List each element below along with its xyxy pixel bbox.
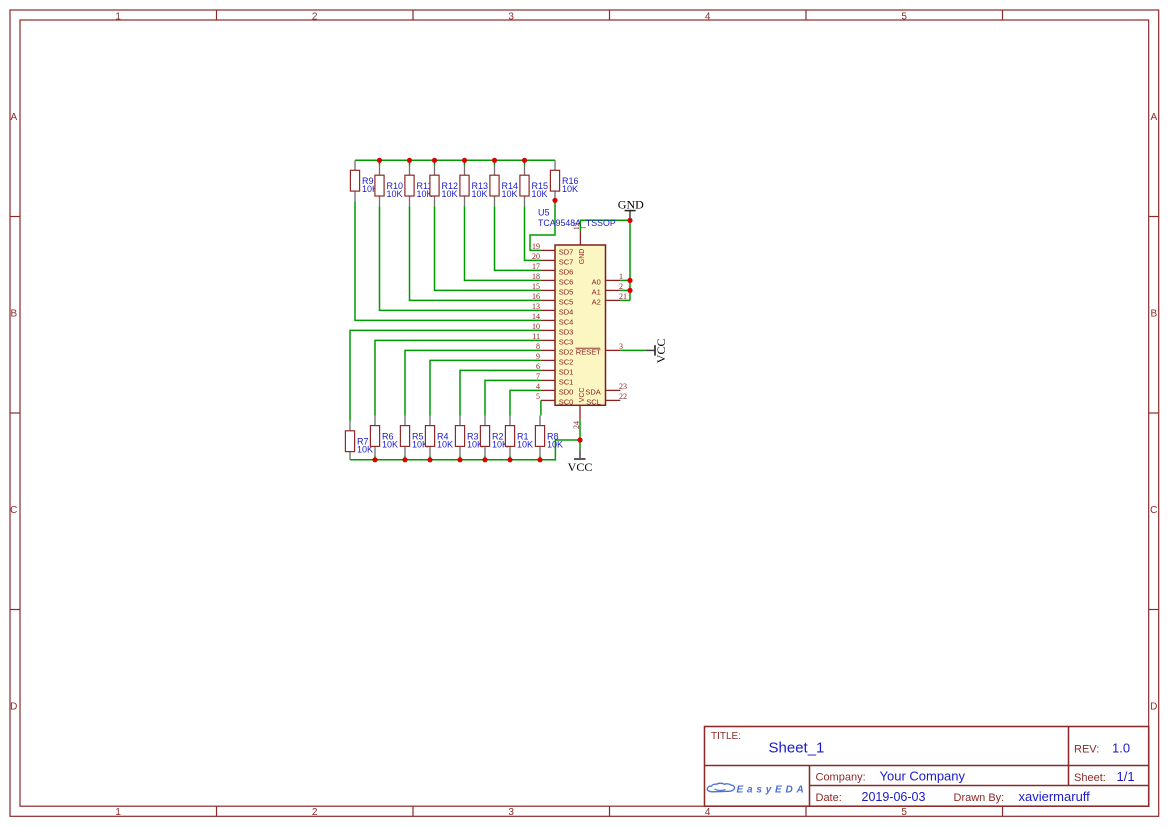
svg-text:VCC: VCC (568, 460, 593, 474)
wire U5 pin 12 to GND rail (580, 220, 630, 231)
svg-text:Sheet:: Sheet: (1074, 772, 1106, 784)
svg-text:EasyEDA: EasyEDA (737, 784, 808, 795)
svg-text:SC6: SC6 (559, 277, 574, 286)
wire R13 to U5 pin 18 SC6 (465, 206, 541, 280)
svg-text:SD0: SD0 (559, 387, 574, 396)
svg-text:7: 7 (536, 372, 540, 381)
svg-text:Date:: Date: (816, 792, 842, 804)
svg-text:Company:: Company: (816, 772, 866, 784)
svg-text:SDA: SDA (585, 387, 600, 396)
pin 17 SD6 (532, 262, 573, 276)
wire R8 to U5 pin 5 SC0 (540, 400, 542, 415)
svg-text:D: D (1150, 701, 1157, 712)
junction GND at A1 (627, 288, 632, 293)
junction top bus at R12 (432, 158, 437, 163)
wire RESET to VCC (620, 349, 645, 351)
svg-text:A1: A1 (592, 287, 601, 296)
wire bottom bus to VCC node (540, 440, 580, 460)
svg-text:3: 3 (508, 807, 514, 818)
svg-text:17: 17 (532, 262, 540, 271)
junction bottom bus at R8 (537, 457, 542, 462)
svg-text:12: 12 (572, 222, 581, 230)
svg-text:10K: 10K (502, 189, 518, 199)
svg-text:Sheet_1: Sheet_1 (769, 739, 825, 756)
pin 14 SC4 (532, 312, 573, 326)
svg-text:4: 4 (536, 382, 540, 391)
svg-text:SC0: SC0 (559, 397, 574, 406)
wire top bus stub to R11 (409, 160, 411, 165)
pin 4 SD0 (536, 382, 573, 396)
wire bottom bus stub to R3 (459, 456, 461, 460)
svg-text:21: 21 (619, 292, 627, 301)
pin 3 RESET (576, 342, 624, 356)
junction bottom bus at R3 (457, 457, 462, 462)
svg-text:10K: 10K (562, 184, 578, 194)
svg-text:SD2: SD2 (559, 347, 574, 356)
svg-text:1: 1 (619, 272, 623, 281)
svg-text:4: 4 (705, 11, 711, 22)
junction bottom bus at R4 (427, 457, 432, 462)
svg-text:2: 2 (312, 807, 318, 818)
svg-text:3: 3 (619, 342, 623, 351)
pin 22 SCL (586, 392, 627, 406)
wire bottom bus stub to R4 (429, 456, 431, 460)
junction bottom bus at R1 (507, 457, 512, 462)
svg-text:Drawn By:: Drawn By: (954, 792, 1005, 804)
pin 16 SC5 (532, 292, 573, 306)
power symbol VCC (right, at RESET) (646, 339, 668, 364)
svg-text:GND: GND (579, 249, 586, 265)
svg-text:A: A (10, 112, 17, 123)
svg-text:SC3: SC3 (559, 337, 574, 346)
junction bottom bus at R5 (402, 457, 407, 462)
wire R12 to U5 pin 15 SD5 (435, 206, 541, 290)
svg-text:SD3: SD3 (559, 327, 574, 336)
svg-text:1: 1 (115, 11, 121, 22)
wire bottom bus stub to R8 (539, 456, 541, 460)
svg-text:10K: 10K (517, 440, 533, 450)
ground symbol / net GND (618, 197, 644, 219)
svg-text:10K: 10K (382, 440, 398, 450)
svg-text:B: B (10, 308, 17, 319)
svg-text:24: 24 (572, 421, 581, 429)
wire R9 to U5 pin 14 SC4 (355, 201, 541, 320)
svg-text:8: 8 (536, 342, 540, 351)
junction top bus at R15 (522, 158, 527, 163)
svg-text:A0: A0 (592, 277, 601, 286)
wire R2 to U5 pin 7 SC1 (485, 380, 541, 415)
svg-text:16: 16 (532, 292, 540, 301)
resistor R3 10K (455, 416, 483, 456)
svg-text:1: 1 (115, 807, 121, 818)
wire R16 to U5 pin 19 SD7 (530, 198, 555, 250)
wire top pull-up bus (355, 159, 555, 161)
junction top bus at R10 (377, 158, 382, 163)
junction GND net at symbol (627, 218, 632, 223)
wire bottom bus stub to R6 (374, 456, 376, 460)
wire A2 stub (620, 299, 630, 301)
wire R1 to U5 pin 4 SD0 (510, 390, 541, 415)
power symbol VCC (bottom, at pin 24) (568, 450, 593, 474)
svg-text:A: A (1150, 112, 1157, 123)
svg-text:SC7: SC7 (559, 257, 574, 266)
svg-text:4: 4 (705, 807, 711, 818)
svg-text:9: 9 (536, 352, 540, 361)
wire R14 to U5 pin 17 SD6 (495, 206, 541, 270)
wire R4 to U5 pin 9 SC2 (430, 360, 541, 415)
resistor R16 10K (550, 160, 578, 198)
svg-text:C: C (10, 505, 17, 516)
svg-text:Your Company: Your Company (880, 769, 966, 784)
wire R3 to U5 pin 6 SD1 (460, 370, 541, 415)
op-amp/IC U5 TCA9548A_TSSOP body (538, 208, 616, 406)
wire A1 stub (620, 289, 630, 291)
wire R5 to U5 pin 8 SD2 (405, 350, 541, 415)
svg-text:15: 15 (532, 282, 540, 291)
svg-text:2: 2 (312, 11, 318, 22)
wire top bus stub to R12 (434, 160, 436, 165)
svg-text:20: 20 (532, 252, 540, 261)
svg-text:3: 3 (508, 11, 514, 22)
pin 13 SD4 (532, 302, 573, 316)
pin 19 SD7 (532, 242, 573, 256)
resistor R13 10K (460, 165, 488, 206)
wire GND rail down right side (629, 220, 631, 300)
wire bottom bus stub to R2 (484, 456, 486, 460)
pin 9 SC2 (536, 352, 573, 366)
wire top bus stub to R14 (494, 160, 496, 165)
svg-text:5: 5 (536, 392, 540, 401)
wire R10 to U5 pin 13 SD4 (380, 206, 541, 310)
svg-text:13: 13 (532, 302, 540, 311)
resistor R6 10K (370, 416, 398, 456)
resistor R1 10K (505, 416, 533, 456)
resistor R11 10K (405, 165, 433, 206)
junction top bus at R11 (407, 158, 412, 163)
wire bottom bus stub to R1 (509, 456, 511, 460)
svg-text:5: 5 (901, 807, 907, 818)
svg-text:23: 23 (619, 382, 627, 391)
pin 7 SC1 (536, 372, 573, 386)
pin 2 A1 (592, 282, 623, 296)
pin 15 SD5 (532, 282, 573, 296)
svg-text:2: 2 (619, 282, 623, 291)
svg-text:TITLE:: TITLE: (711, 731, 741, 742)
svg-text:SD5: SD5 (559, 287, 574, 296)
svg-text:10K: 10K (547, 440, 563, 450)
junction top bus at R14 (492, 158, 497, 163)
pin 6 SD1 (536, 362, 573, 376)
svg-text:A2: A2 (592, 297, 601, 306)
svg-text:5: 5 (901, 11, 907, 22)
svg-text:SCL: SCL (586, 397, 601, 406)
svg-text:18: 18 (532, 272, 540, 281)
svg-text:D: D (10, 701, 17, 712)
resistor R5 10K (400, 416, 428, 456)
svg-text:SC1: SC1 (559, 377, 574, 386)
svg-text:SC2: SC2 (559, 357, 574, 366)
svg-text:10K: 10K (442, 189, 458, 199)
svg-text:REV:: REV: (1074, 744, 1099, 756)
pin 1 A0 (592, 272, 623, 286)
svg-text:SD4: SD4 (559, 307, 574, 316)
junction R16 bottom node (552, 198, 557, 203)
pin 21 A2 (592, 292, 627, 306)
pin 24 VCC (bottom) (572, 388, 586, 429)
junction VCC node at pin 24 (577, 437, 582, 442)
svg-text:SD7: SD7 (559, 247, 574, 256)
wire top bus stub to R15 (524, 160, 526, 165)
svg-text:1/1: 1/1 (1117, 769, 1135, 784)
svg-text:19: 19 (532, 242, 540, 251)
resistor R14 10K (490, 165, 518, 206)
wire R11 to U5 pin 16 SC5 (410, 206, 541, 300)
svg-text:VCC: VCC (579, 388, 586, 403)
svg-text:10K: 10K (532, 189, 548, 199)
svg-text:10K: 10K (387, 189, 403, 199)
svg-text:2019-06-03: 2019-06-03 (862, 790, 926, 804)
svg-text:U5: U5 (538, 208, 550, 218)
pin 8 SD2 (536, 342, 573, 356)
wire A0 stub (620, 279, 630, 281)
resistor R8 10K (535, 416, 563, 456)
resistor R15 10K (520, 165, 548, 206)
wire U5 pin 24 to VCC symbol (579, 420, 581, 450)
svg-text:10K: 10K (472, 189, 488, 199)
junction bottom bus at R2 (482, 457, 487, 462)
wire R6 to U5 pin 11 SC3 (375, 340, 541, 415)
svg-text:GND: GND (618, 197, 644, 211)
svg-text:6: 6 (536, 362, 540, 371)
wire top bus stub to R13 (464, 160, 466, 165)
junction bottom bus at R6 (372, 457, 377, 462)
resistor R7 10K (345, 421, 373, 460)
resistor R2 10K (480, 416, 508, 456)
resistor R12 10K (430, 165, 458, 206)
pin 20 SC7 (532, 252, 573, 266)
svg-text:B: B (1150, 308, 1157, 319)
svg-text:VCC: VCC (654, 339, 668, 364)
svg-text:10: 10 (532, 322, 540, 331)
svg-text:SC5: SC5 (559, 297, 574, 306)
pin 12 GND (top) (572, 222, 586, 264)
wire R15 to U5 pin 20 SC7 (525, 206, 541, 260)
junction GND at A0 (627, 278, 632, 283)
junction top bus at R13 (462, 158, 467, 163)
svg-text:14: 14 (532, 312, 540, 321)
wire bottom bus stub to R5 (404, 456, 406, 460)
pin 11 SC3 (532, 332, 573, 346)
svg-text:SC4: SC4 (559, 317, 574, 326)
wire R7 to U5 pin 10 SD3 (350, 330, 541, 421)
svg-text:SD6: SD6 (559, 267, 574, 276)
resistor R4 10K (425, 416, 453, 456)
svg-text:10K: 10K (437, 440, 453, 450)
pin 10 SD3 (532, 322, 573, 336)
pin 18 SC6 (532, 272, 573, 286)
pin 23 SDA (585, 382, 627, 396)
svg-text:SD1: SD1 (559, 367, 574, 376)
svg-text:RESET: RESET (576, 347, 601, 356)
wire bottom VCC bus (350, 459, 540, 461)
svg-text:11: 11 (532, 332, 540, 341)
svg-text:1.0: 1.0 (1112, 741, 1130, 756)
svg-text:22: 22 (619, 392, 627, 401)
resistor R9 10K (350, 160, 378, 201)
svg-text:C: C (1150, 505, 1157, 516)
pin 5 SC0 (536, 392, 573, 406)
svg-text:xaviermaruff: xaviermaruff (1019, 789, 1091, 804)
wire top bus stub to R10 (379, 160, 381, 165)
resistor R10 10K (375, 165, 403, 206)
